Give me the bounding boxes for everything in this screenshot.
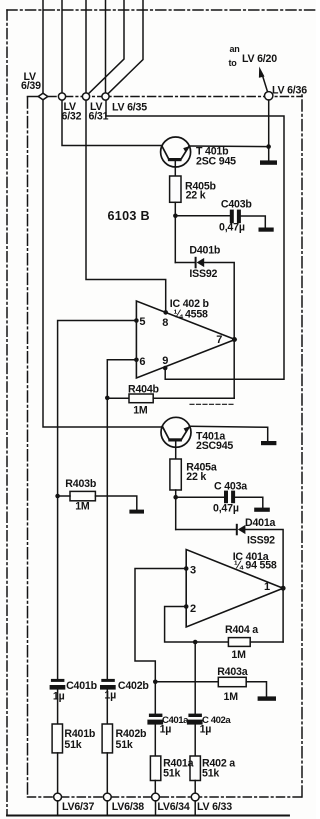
resistor R404a 1M bbox=[228, 638, 250, 647]
wire bus vertical 3 to LV6/31 bbox=[85, 0, 87, 93]
svg-text:1µ: 1µ bbox=[104, 690, 116, 702]
connector LV6/37 (circle) bbox=[54, 793, 62, 801]
resistor R401b 51k bbox=[52, 724, 62, 753]
resistor R402b 51k bbox=[102, 724, 112, 753]
wire LV6/34 to chassis bbox=[155, 801, 157, 816]
ground bar at R403b bbox=[129, 510, 144, 514]
wire pin 2 rail down to C402a bbox=[194, 642, 196, 714]
wire junction to R403a bbox=[155, 681, 218, 683]
resistor R401a 51k bbox=[150, 756, 160, 781]
capacitor C402a 1u bbox=[187, 714, 203, 725]
resistor R402a 51k bbox=[190, 756, 200, 781]
wire stub diamond LV6/39 to module border bbox=[28, 96, 39, 98]
outer chassis border bottom bbox=[7, 815, 289, 817]
arrow to LV6/20 bbox=[262, 75, 267, 91]
module LV6 border top (dash-dot through connectors) bbox=[48, 96, 302, 98]
transistor T401b bbox=[161, 137, 191, 176]
wire bus vertical 5 with diagonal to LV6/31 bbox=[89, 0, 124, 93]
capacitor C401a 1u bbox=[147, 714, 163, 725]
wire junction down to D401b bbox=[175, 262, 195, 264]
svg-text:C403b: C403b bbox=[221, 198, 253, 210]
svg-text:C401b: C401b bbox=[66, 680, 98, 692]
wire R401b to LV6/37 bbox=[57, 753, 59, 793]
capacitor C401b 1u bbox=[50, 679, 66, 690]
svg-text:R403b: R403b bbox=[65, 478, 97, 490]
outer chassis border left (dash-dot) bbox=[6, 10, 8, 815]
wire C401b to R401b bbox=[57, 690, 59, 724]
svg-text:1µ: 1µ bbox=[160, 724, 172, 736]
svg-text:¼ 4558: ¼ 4558 bbox=[174, 308, 208, 320]
svg-text:LV 6/35: LV 6/35 bbox=[112, 102, 147, 114]
svg-text:1M: 1M bbox=[231, 649, 246, 661]
junction collector/LV6/36 bbox=[266, 144, 271, 149]
op-amp IC402b 1/4 4558 bbox=[136, 301, 235, 378]
svg-text:LV6/38: LV6/38 bbox=[112, 801, 144, 813]
resistor R405b 22k bbox=[170, 176, 181, 202]
svg-text:51k: 51k bbox=[64, 739, 81, 751]
wire R405a to junction bbox=[175, 490, 177, 530]
svg-text:LV 6/20: LV 6/20 bbox=[242, 53, 277, 65]
svg-text:7: 7 bbox=[216, 334, 222, 346]
wire bus vertical 6 with diagonal to LV6/35 bbox=[108, 0, 143, 93]
wire D401a to op-amp output riser bbox=[245, 530, 283, 643]
svg-text:1M: 1M bbox=[75, 501, 90, 513]
svg-text:¼ 94 558: ¼ 94 558 bbox=[234, 559, 277, 571]
pin 8 dot bbox=[163, 310, 168, 315]
wire LV6/35 down right down to pin 9 line bbox=[106, 100, 284, 379]
wire pin 3 left and down to C401a rail bbox=[135, 569, 186, 714]
svg-text:9: 9 bbox=[162, 355, 168, 367]
svg-text:an: an bbox=[230, 44, 240, 54]
wire pin5 rail down to C401b bbox=[57, 496, 59, 679]
wire pin5 rail junction R403b bbox=[55, 494, 60, 499]
junction R403a left bbox=[153, 680, 158, 685]
capacitor C403a 0,47u bbox=[224, 491, 235, 504]
resistor R403a 1M bbox=[218, 677, 246, 686]
wire T401a collector to ground bbox=[190, 426, 268, 441]
diode D401a ISS92 bbox=[237, 525, 246, 535]
wire pin 6 rail down to C402b bbox=[106, 398, 108, 679]
svg-text:51k: 51k bbox=[202, 767, 219, 779]
svg-text:51k: 51k bbox=[163, 767, 180, 779]
svg-text:2: 2 bbox=[190, 603, 196, 615]
svg-text:R404b: R404b bbox=[128, 384, 160, 396]
wire bus vertical 2 to LV6/32 bbox=[61, 0, 63, 93]
svg-text:6/32: 6/32 bbox=[62, 110, 82, 122]
wire LV6/31 down right and down to pin 8 bbox=[86, 100, 166, 311]
pin 9 dot bbox=[163, 366, 168, 371]
ground bar at T401a bbox=[261, 441, 276, 445]
wire junction to C403b bbox=[175, 215, 229, 217]
op-amp IC401a 1/4 94558 bbox=[186, 550, 283, 628]
wire C403a to ground bbox=[235, 497, 263, 507]
wire bus vertical 1 to LV6/39 bbox=[42, 0, 44, 93]
svg-text:LV 6/36: LV 6/36 bbox=[272, 85, 307, 97]
svg-text:D401a: D401a bbox=[245, 517, 276, 529]
wire R403b to ground bbox=[95, 496, 136, 510]
svg-text:22 k: 22 k bbox=[186, 471, 206, 483]
outer chassis border top (dash-dot) bbox=[7, 9, 316, 11]
wire R404b to output riser bbox=[153, 397, 234, 399]
junction R404a left bbox=[193, 640, 198, 645]
wire pin5 junction to R403b bbox=[58, 495, 70, 497]
pin 6 dot bbox=[134, 358, 139, 363]
svg-text:2SC 945: 2SC 945 bbox=[196, 156, 236, 168]
pin 2 dot bbox=[184, 604, 189, 609]
junction R404b left bbox=[105, 396, 110, 401]
resistor R403b 1M bbox=[70, 491, 95, 500]
svg-text:1µ: 1µ bbox=[200, 724, 212, 736]
wire bus vertical 4 to LV6/35 bbox=[105, 0, 107, 93]
capacitor C403b 0,47u bbox=[230, 210, 241, 224]
svg-text:6103 B: 6103 B bbox=[108, 209, 150, 223]
ground bar at C403b bbox=[259, 228, 274, 232]
svg-text:1M: 1M bbox=[224, 691, 239, 703]
wire D401b to op-amp output bbox=[204, 263, 234, 399]
wire R405b to junction and on down bbox=[174, 202, 176, 262]
module LV6 border left (dash-dot) bbox=[27, 97, 29, 797]
svg-text:2SC945: 2SC945 bbox=[196, 440, 233, 452]
connector LV6/38 (circle) bbox=[103, 793, 111, 801]
svg-text:1M: 1M bbox=[133, 404, 148, 416]
resistor R405a 22k bbox=[170, 459, 181, 490]
svg-text:C402b: C402b bbox=[118, 680, 150, 692]
svg-text:5: 5 bbox=[139, 316, 145, 328]
connector LV6/35 (circle) bbox=[102, 93, 109, 100]
module LV6 border right (dash-dot) bbox=[301, 95, 303, 797]
wire junction down to D401a bbox=[176, 529, 236, 531]
wire LV6/39 down then right to T401a base bbox=[43, 100, 162, 427]
svg-text:ISS92: ISS92 bbox=[247, 535, 275, 547]
capacitor C402b 1u bbox=[100, 679, 116, 690]
svg-text:to: to bbox=[229, 58, 238, 68]
ground bar at R403a bbox=[258, 696, 276, 700]
output pin 1 dot bbox=[281, 586, 286, 591]
svg-text:R404 a: R404 a bbox=[225, 624, 258, 636]
junction R405a/C403a bbox=[173, 495, 178, 500]
svg-text:6/31: 6/31 bbox=[89, 110, 109, 122]
wire C402b to R402b bbox=[106, 690, 108, 724]
ground bar at T401b collector node bbox=[260, 160, 277, 164]
svg-text:0,47µ: 0,47µ bbox=[213, 503, 239, 515]
wire pin 6 to R404b rail bbox=[107, 360, 136, 398]
connector LV6/36 (circle) bbox=[265, 92, 273, 100]
wire junction to R404a bbox=[195, 641, 228, 643]
svg-text:C 403a: C 403a bbox=[214, 481, 247, 493]
wire LV6/38 to chassis bbox=[106, 801, 108, 816]
wire LV6/32 down then right to T401b base bbox=[62, 100, 162, 145]
svg-text:51k: 51k bbox=[116, 739, 133, 751]
pin 3 dot bbox=[184, 566, 189, 571]
ground bar at C403a bbox=[254, 508, 270, 512]
connector LV6/33 (circle) bbox=[191, 793, 199, 801]
pin 5 dot bbox=[134, 318, 139, 323]
wire C401a to R401a bbox=[154, 725, 156, 756]
svg-text:LV6/37: LV6/37 bbox=[62, 801, 94, 813]
connector LV6/32 (circle) bbox=[58, 93, 65, 100]
wire R401a to LV6/34 bbox=[154, 781, 156, 794]
wire C403b to ground bbox=[241, 216, 265, 228]
wire junction to C403a bbox=[176, 496, 224, 498]
svg-text:ISS92: ISS92 bbox=[189, 268, 217, 280]
svg-text:R403a: R403a bbox=[217, 666, 248, 678]
svg-text:8: 8 bbox=[162, 317, 168, 329]
svg-text:1: 1 bbox=[264, 581, 270, 593]
svg-text:D401b: D401b bbox=[189, 245, 221, 257]
wire R403a to ground bbox=[246, 682, 266, 697]
resistor R404b 1M bbox=[129, 394, 153, 403]
svg-text:0,47µ: 0,47µ bbox=[219, 222, 245, 234]
svg-text:22 k: 22 k bbox=[186, 190, 206, 202]
svg-text:3: 3 bbox=[190, 564, 196, 576]
svg-text:6: 6 bbox=[139, 356, 145, 368]
wire LV6/33 to chassis bbox=[194, 801, 196, 816]
connector LV6/31 (circle) bbox=[82, 93, 89, 100]
wire LV6/37 to chassis bbox=[57, 801, 59, 816]
wire pin 2 left and down to R404a junction bbox=[165, 607, 196, 643]
wire LV6/36 down to node bbox=[268, 100, 270, 161]
connector LV6/39 (diamond) bbox=[38, 93, 48, 100]
stray dashed mark bbox=[190, 403, 233, 405]
wire T401b collector to LV6/36 node bbox=[189, 145, 268, 148]
transistor T401a bbox=[161, 417, 191, 459]
connector LV6/34 (circle) bbox=[152, 793, 160, 801]
wire R402a to LV6/33 bbox=[194, 781, 196, 794]
wire R402b to LV6/38 bbox=[106, 753, 108, 793]
output node dot pin 7 bbox=[232, 337, 237, 342]
svg-text:LV 6/33: LV 6/33 bbox=[197, 801, 232, 813]
junction R405b/C403b bbox=[173, 214, 178, 219]
wire C402a to R402a bbox=[194, 725, 196, 756]
wire R404a to output riser bbox=[250, 641, 283, 643]
svg-text:LV6/34: LV6/34 bbox=[157, 801, 189, 813]
wire pin 5 to left rail bbox=[58, 321, 137, 497]
module LV6 border bottom (dash-dot) bbox=[28, 796, 303, 798]
wire junction to R404b bbox=[107, 397, 129, 399]
svg-text:6/39: 6/39 bbox=[21, 80, 41, 92]
diode D401b ISS92 bbox=[196, 258, 205, 268]
svg-text:1µ: 1µ bbox=[53, 691, 65, 703]
